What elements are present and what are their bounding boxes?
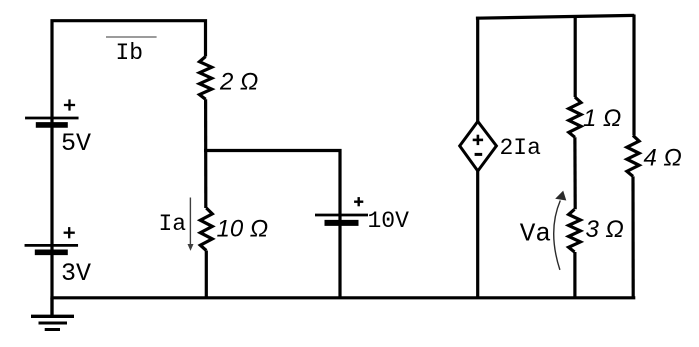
- svg-text:Ib: Ib: [116, 40, 144, 66]
- svg-text:5V: 5V: [61, 129, 91, 158]
- svg-text:10V: 10V: [368, 208, 410, 234]
- svg-text:4 Ω: 4 Ω: [644, 144, 682, 171]
- svg-text:1 Ω: 1 Ω: [583, 105, 621, 132]
- svg-text:2Ia: 2Ia: [500, 135, 542, 161]
- svg-text:Va: Va: [520, 218, 551, 248]
- svg-text:3V: 3V: [61, 259, 91, 288]
- svg-text:Ia: Ia: [159, 211, 187, 237]
- svg-text:2 Ω: 2 Ω: [219, 68, 258, 95]
- svg-text:10 Ω: 10 Ω: [217, 216, 269, 243]
- svg-text:3 Ω: 3 Ω: [586, 216, 624, 243]
